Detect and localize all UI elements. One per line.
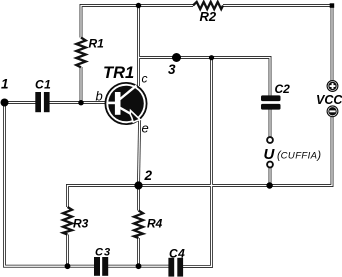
wire left edge: node 1 down to bottom rail to C3 [5,103,95,267]
transistor TR1 [105,83,146,124]
wire R1 bottom to base node [80,67,83,104]
svg-text:e: e [142,121,149,136]
node 3 [172,53,181,62]
svg-text:1: 1 [1,77,9,92]
svg-text:c: c [142,72,148,86]
VCC plus terminal [327,81,338,92]
svg-text:R2: R2 [200,9,217,24]
resistor R4 [134,211,143,239]
junction: R1 at base rail [78,100,83,105]
resistor R1 [76,38,85,68]
capacitor C3 [94,257,108,276]
svg-text:R3: R3 [73,217,89,231]
wire C2 bottom to U upper terminal [269,110,272,138]
resistor R3 [63,207,72,235]
svg-text:VCC: VCC [316,93,342,107]
node 1 [1,99,9,107]
junction square: top-right corner [330,3,335,8]
wire emitter: transistor down to node 2 [139,120,140,186]
wire R3 bottom lead [66,235,69,267]
svg-text:R1: R1 [89,37,105,51]
svg-text:(CUFFIA): (CUFFIA) [277,150,321,162]
svg-text:C2: C2 [275,82,291,96]
junction: tee at node 3 rail [209,55,214,60]
wire top-left corner: R1 top to top rail to R2 left [81,6,193,38]
svg-text:R4: R4 [147,217,163,231]
svg-text:C3: C3 [95,247,111,259]
VCC minus terminal [327,106,338,117]
U output upper terminal [267,137,273,143]
wire R4 bottom lead [137,238,140,266]
svg-text:b: b [96,89,103,104]
node 2 [134,181,142,189]
svg-text:C4: C4 [169,247,185,261]
capacitor C4 [168,258,183,277]
wire U lower terminal to node2 rail [269,167,272,185]
wire bottom rail C3 to C4 [108,265,169,268]
capacitor C2 [261,95,281,109]
U output lower terminal [267,162,273,168]
svg-text:3: 3 [168,62,176,77]
junction: R3 at bottom rail [65,263,71,269]
wire base rail: node 1 to transistor base [5,101,36,104]
wire R4 top lead [137,186,140,211]
svg-text:TR1: TR1 [103,64,134,82]
wire collector: top rail dot down to transistor [137,6,140,87]
wire VCC minus down, left along node2 rail, down to R3 top [68,117,333,207]
junction: R4 at bottom rail [136,263,142,269]
junction: U lead at node2 rail [266,182,272,188]
junction: collector at top rail [136,3,141,8]
svg-text:2: 2 [144,168,153,183]
resistor R2 [193,2,223,9]
wire top rail right: R2 to VCC corner, down to + terminal [223,6,332,81]
wire C1 to base [50,101,106,104]
wire node 3 rail, corner down to C2 [139,58,271,96]
svg-text:C1: C1 [35,78,51,92]
svg-text:U: U [264,146,276,163]
capacitor C1 [35,92,49,112]
wire C4 right, corner up to node3 tee [183,58,212,267]
